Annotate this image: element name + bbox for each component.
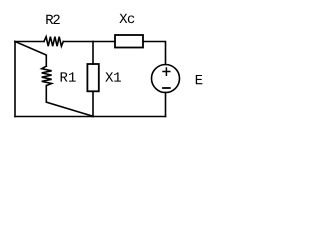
source E bbox=[152, 65, 180, 93]
wire top middle bbox=[63, 41, 115, 43]
wire diagonal top-left corner to R1 bbox=[15, 42, 46, 67]
label R1 letter R bbox=[61, 72, 68, 81]
wire from top wire down to X1 box bbox=[92, 42, 94, 65]
label X1 letter X bbox=[105, 72, 113, 81]
label Xc letter c bbox=[128, 15, 134, 23]
resistor R2 bbox=[44, 37, 63, 47]
label E bbox=[196, 75, 203, 84]
reactance box X1 bbox=[87, 64, 98, 91]
wire top right bbox=[143, 42, 166, 65]
label R2 digit 2 bbox=[53, 15, 59, 24]
wire left vertical bbox=[14, 42, 16, 117]
minus sign of E bbox=[163, 87, 170, 89]
wire below X1 box to bottom junction bbox=[92, 91, 94, 116]
resistor R1 bbox=[42, 66, 52, 85]
label X1 digit 1 bbox=[114, 72, 121, 81]
reactance box Xc bbox=[115, 35, 143, 48]
wire below source E bbox=[165, 93, 167, 117]
wire bottom bbox=[15, 116, 166, 118]
label R2 letter R bbox=[46, 15, 53, 24]
plus sign of E bbox=[163, 68, 170, 75]
wire top-left horizontal bbox=[15, 41, 44, 43]
label Xc letter X bbox=[119, 14, 127, 23]
wire below R1 diagonal to bottom junction bbox=[46, 86, 93, 117]
label R1 digit 1 bbox=[69, 72, 76, 81]
